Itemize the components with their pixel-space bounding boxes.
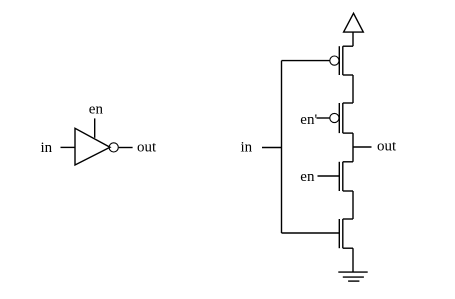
svg-text:out: out bbox=[377, 139, 397, 155]
svg-text:in: in bbox=[241, 140, 253, 156]
svg-text:en: en bbox=[300, 169, 315, 185]
svg-text:in: in bbox=[41, 140, 53, 156]
svg-text:en: en bbox=[89, 101, 104, 117]
svg-text:out: out bbox=[137, 140, 157, 156]
svg-text:en': en' bbox=[300, 112, 317, 128]
